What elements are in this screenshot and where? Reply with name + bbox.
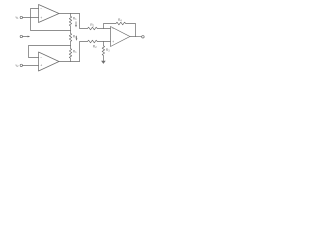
svg-text:−: − [112,27,114,31]
svg-text:−: − [40,56,42,60]
svg-text:R1: R1 [73,16,77,21]
svg-text:RG: RG [73,34,77,39]
svg-text:R2: R2 [90,23,94,28]
svg-text:v1: v1 [16,15,20,20]
svg-text:+: + [40,64,42,68]
svg-text:v2: v2 [16,63,20,68]
svg-text:R4: R4 [118,18,122,23]
svg-text:R2: R2 [93,44,97,49]
svg-text:+: + [112,40,114,44]
svg-text:+: + [40,16,42,20]
svg-text:R3: R3 [106,48,110,53]
svg-text:R1: R1 [73,50,77,55]
svg-text:−: − [40,7,42,11]
